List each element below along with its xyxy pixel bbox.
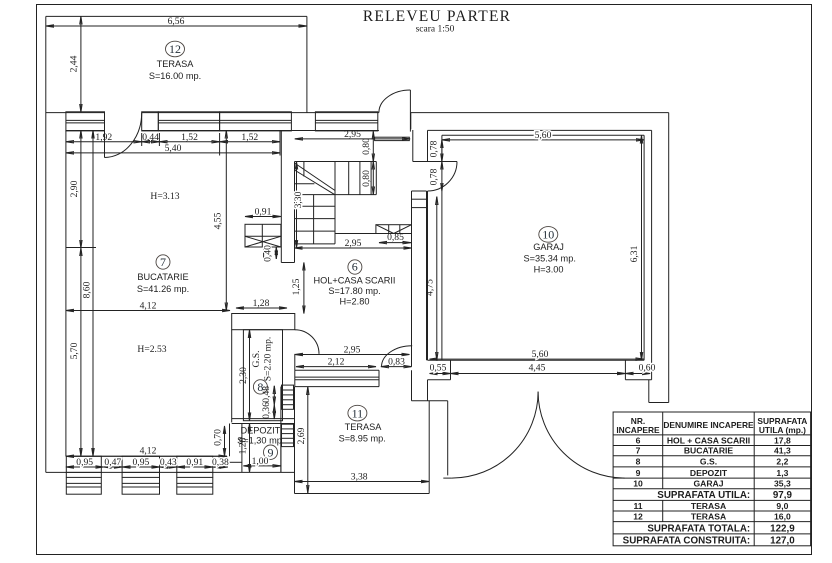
dim 2,90 — [69, 131, 81, 249]
top wall outer face — [46, 112, 379, 114]
dim 0,91 — [245, 207, 281, 218]
dim 4,12 mid — [66, 301, 230, 312]
room 10 GARAJ — [524, 227, 576, 275]
depozit labels — [237, 426, 282, 460]
svg-text:0,43: 0,43 — [160, 457, 177, 468]
window top C — [220, 112, 292, 131]
svg-text:1,52: 1,52 — [181, 132, 198, 143]
dim 2,44 terasa 12 — [69, 16, 81, 112]
entry pier below garage wall — [412, 370, 448, 493]
svg-text:H=2.53: H=2.53 — [137, 344, 166, 355]
garage roof outline — [411, 113, 669, 403]
table text — [616, 416, 807, 546]
top wall inner face — [66, 130, 379, 132]
svg-text:7: 7 — [636, 446, 641, 456]
dim 0,48 — [261, 386, 275, 405]
svg-text:1,00: 1,00 — [252, 456, 269, 467]
svg-text:TERASA: TERASA — [691, 511, 726, 521]
svg-text:4,45: 4,45 — [529, 362, 546, 373]
dim 5,60 garage bottom — [430, 349, 644, 360]
svg-text:10: 10 — [542, 228, 554, 242]
bottom window 3 — [177, 456, 213, 472]
stair treads lower flight — [295, 195, 336, 244]
svg-text:H=3.00: H=3.00 — [534, 265, 564, 275]
entrance door top (hol) — [379, 90, 411, 132]
svg-text:0,80: 0,80 — [361, 138, 372, 155]
left wall inner face — [65, 131, 67, 457]
svg-text:DEPOZIT: DEPOZIT — [240, 426, 280, 436]
svg-text:0,85: 0,85 — [387, 232, 404, 243]
svg-text:0,38: 0,38 — [212, 457, 229, 468]
svg-text:G.S.: G.S. — [251, 350, 262, 367]
svg-text:6: 6 — [352, 260, 358, 274]
svg-text:41,3: 41,3 — [774, 446, 791, 456]
dim 0,70 — [213, 426, 225, 456]
svg-text:DEPOZIT: DEPOZIT — [690, 468, 728, 478]
svg-text:2,69: 2,69 — [296, 427, 307, 444]
terasa 11 window band — [295, 370, 379, 386]
terasa 11 edges — [295, 387, 430, 494]
svg-text:4,75: 4,75 — [425, 279, 436, 296]
svg-text:2,12: 2,12 — [328, 356, 345, 367]
depozit walls — [230, 424, 281, 473]
vent block GS — [282, 385, 294, 409]
svg-text:0,83: 0,83 — [388, 356, 405, 367]
dim 0,78 upper — [429, 140, 442, 162]
svg-text:INCAPERE: INCAPERE — [616, 425, 660, 435]
dim 5,70 — [69, 248, 81, 456]
svg-text:HOL+CASA SCARII: HOL+CASA SCARII — [314, 276, 396, 286]
dim 1,00 — [243, 456, 281, 467]
svg-text:0,48: 0,48 — [261, 386, 272, 403]
svg-text:S=16.00 mp.: S=16.00 mp. — [149, 71, 201, 81]
svg-text:S=35.34 mp.: S=35.34 mp. — [524, 254, 576, 264]
svg-text:H=3.13: H=3.13 — [150, 191, 179, 202]
svg-text:8: 8 — [636, 457, 641, 467]
svg-text:0,40: 0,40 — [263, 245, 274, 262]
svg-text:4,55: 4,55 — [213, 212, 224, 229]
svg-text:35,3: 35,3 — [774, 479, 791, 489]
svg-text:RELEVEU PARTER: RELEVEU PARTER — [363, 8, 511, 25]
svg-text:0,80: 0,80 — [361, 170, 372, 187]
svg-text:5,60: 5,60 — [535, 130, 552, 141]
svg-text:12: 12 — [633, 511, 643, 521]
svg-text:8,60: 8,60 — [81, 281, 92, 298]
pier top wall — [142, 112, 159, 131]
svg-text:0,91: 0,91 — [186, 457, 203, 468]
title — [363, 8, 511, 35]
terasa 12 outline — [46, 16, 307, 472]
hol/garage wall upper L — [413, 130, 428, 162]
vent block depozit — [282, 424, 294, 446]
dim 0,83 — [381, 356, 412, 367]
bottom window 2 — [122, 456, 159, 472]
dim 6,56 terasa 12 — [46, 16, 307, 27]
bottom window 1 — [66, 456, 101, 472]
svg-text:S=2.20 mp.: S=2.20 mp. — [263, 337, 274, 382]
svg-text:S=8.95 mp.: S=8.95 mp. — [339, 434, 386, 444]
stair winder corner — [295, 162, 336, 195]
G.S. door — [295, 330, 319, 354]
svg-text:HOL + CASA SCARII: HOL + CASA SCARII — [667, 435, 750, 445]
svg-text:TERASA: TERASA — [345, 422, 383, 432]
dim 4,55 — [213, 131, 227, 311]
svg-text:0,55: 0,55 — [430, 362, 447, 373]
dim 0,78 lower — [429, 162, 442, 192]
door hol-terasa11 — [382, 346, 413, 367]
svg-text:1,52: 1,52 — [241, 132, 258, 143]
svg-text:97,9: 97,9 — [773, 490, 793, 501]
threshold black band — [375, 137, 410, 140]
stair treads upper flight — [335, 162, 371, 195]
svg-text:1,28: 1,28 — [238, 437, 249, 454]
dim 2,30 — [238, 330, 250, 421]
svg-text:0,60: 0,60 — [639, 362, 656, 373]
stair entry steps (hol) — [376, 225, 412, 234]
dim 0,36 — [261, 402, 275, 419]
room 6 HOL+CASA SCARII — [314, 260, 396, 307]
dim 1,28 depozit — [238, 424, 250, 473]
dim 1,28 G.S. — [236, 298, 287, 309]
window top D (hol) — [315, 112, 377, 131]
svg-text:UTILA (mp.): UTILA (mp.) — [759, 425, 806, 435]
svg-text:9,0: 9,0 — [776, 501, 788, 511]
svg-text:BUCATARIE: BUCATARIE — [684, 446, 734, 456]
svg-text:0,91: 0,91 — [255, 207, 272, 218]
svg-text:TERASA: TERASA — [691, 501, 726, 511]
dim row 1,92 0,44 1,52 1,52 — [66, 131, 280, 156]
svg-text:1,92: 1,92 — [95, 132, 112, 143]
G.S. labels — [251, 337, 274, 394]
svg-text:scara 1:50: scara 1:50 — [416, 25, 455, 35]
G.S. walls — [232, 330, 295, 473]
dim 0,85 — [379, 232, 411, 243]
svg-text:SUPRAFATA CONSTRUITA:: SUPRAFATA CONSTRUITA: — [623, 535, 751, 546]
garage door from hol — [428, 162, 458, 192]
svg-text:3,38: 3,38 — [351, 471, 368, 482]
svg-text:5,40: 5,40 — [165, 143, 182, 154]
svg-text:12: 12 — [169, 42, 181, 56]
svg-text:2,95: 2,95 — [344, 129, 361, 140]
room 12 TERASA label — [149, 41, 201, 81]
dim row 0,95 0,47 0,95 0,43 0,91 0,38 — [66, 457, 229, 468]
svg-text:DENUMIRE INCAPERE: DENUMIRE INCAPERE — [663, 420, 754, 430]
svg-text:GARAJ: GARAJ — [693, 479, 723, 489]
dim 3,30 — [293, 162, 304, 249]
window sills below bottom wall — [66, 477, 213, 494]
svg-text:3,30: 3,30 — [293, 191, 304, 208]
svg-text:2,95: 2,95 — [345, 238, 362, 249]
sill connectors — [66, 472, 213, 477]
entry double door arcs — [443, 392, 624, 479]
ext tick 2,90/5,70 — [66, 247, 96, 249]
svg-text:2,95: 2,95 — [344, 344, 361, 355]
svg-text:0,44: 0,44 — [142, 132, 159, 143]
svg-text:0,95: 0,95 — [133, 457, 150, 468]
svg-text:0,78: 0,78 — [429, 140, 440, 157]
dim 2,95 hol top — [295, 129, 410, 140]
dim 2,95 hol bottom — [295, 344, 410, 355]
door terasa12-bucatarie — [105, 113, 142, 158]
svg-text:5,70: 5,70 — [69, 342, 80, 359]
svg-text:122,9: 122,9 — [770, 523, 795, 534]
dim 8,60 — [81, 131, 93, 457]
svg-text:H=2.80: H=2.80 — [340, 297, 370, 307]
svg-text:G.S.: G.S. — [700, 457, 717, 467]
svg-text:BUCATARIE: BUCATARIE — [137, 272, 188, 282]
svg-text:0,70: 0,70 — [213, 429, 224, 446]
svg-text:4,12: 4,12 — [140, 446, 157, 457]
svg-text:2,44: 2,44 — [69, 55, 80, 72]
room 7 BUCATARIE — [137, 191, 189, 355]
svg-text:GARAJ: GARAJ — [533, 242, 564, 252]
svg-text:1,25: 1,25 — [291, 278, 302, 295]
bucatarie/stair wall — [281, 131, 294, 263]
svg-text:6,56: 6,56 — [168, 16, 185, 27]
table — [613, 412, 811, 546]
dim 0,80 upper — [361, 132, 373, 162]
svg-text:0,78: 0,78 — [429, 168, 440, 185]
window top B — [158, 112, 219, 131]
svg-text:SUPRAFATA UTILA:: SUPRAFATA UTILA: — [657, 490, 750, 501]
svg-text:S=41.26 mp.: S=41.26 mp. — [137, 284, 189, 294]
dim 2,69 — [296, 387, 308, 493]
dim 5,40 — [66, 143, 280, 154]
svg-text:0,36: 0,36 — [261, 402, 272, 419]
svg-text:6: 6 — [636, 435, 641, 445]
svg-text:1,3: 1,3 — [776, 468, 788, 478]
svg-text:1,28: 1,28 — [253, 298, 270, 309]
room 11 TERASA — [339, 405, 386, 443]
hol/garage wall lower — [412, 191, 427, 367]
dim 3,38 — [295, 471, 430, 482]
svg-text:0,47: 0,47 — [104, 457, 121, 468]
dim 5,60 garage top — [442, 130, 644, 141]
dim 0,40 — [263, 245, 277, 262]
bottom wall faces — [46, 456, 295, 472]
svg-text:TERASA: TERASA — [157, 59, 195, 69]
svg-text:6,31: 6,31 — [629, 245, 640, 262]
staircase block — [295, 162, 377, 244]
svg-text:10: 10 — [633, 479, 643, 489]
svg-text:0,95: 0,95 — [76, 457, 93, 468]
dim 2,95 stair bottom — [295, 238, 412, 249]
svg-text:127,0: 127,0 — [770, 535, 795, 546]
svg-text:17,8: 17,8 — [774, 435, 791, 445]
svg-text:SUPRAFATA TOTALA:: SUPRAFATA TOTALA: — [647, 523, 750, 534]
svg-text:5,60: 5,60 — [532, 349, 549, 360]
svg-text:11: 11 — [633, 501, 642, 511]
svg-text:9: 9 — [636, 468, 641, 478]
dim 2,12 — [296, 356, 376, 367]
kitchen step block — [245, 224, 281, 247]
G.S. top wall — [232, 314, 295, 330]
dim 0,80 lower — [361, 162, 373, 195]
garage walls — [428, 130, 652, 400]
svg-text:S=17.80 mp.: S=17.80 mp. — [328, 286, 380, 296]
dim 4,12 bottom — [66, 446, 227, 457]
dim 6,31 — [629, 135, 642, 360]
window top A — [66, 112, 105, 131]
dim 4,75 — [425, 197, 437, 361]
dim 1,25 — [291, 263, 304, 314]
svg-text:7: 7 — [160, 255, 166, 269]
svg-text:16,0: 16,0 — [774, 511, 791, 521]
svg-text:2,30: 2,30 — [238, 367, 249, 384]
svg-text:2,2: 2,2 — [776, 457, 788, 467]
svg-text:11: 11 — [352, 406, 364, 420]
svg-text:4,12: 4,12 — [140, 301, 157, 312]
dim row 0,55 4,45 0,60 — [430, 362, 656, 373]
svg-text:2,90: 2,90 — [69, 180, 80, 197]
